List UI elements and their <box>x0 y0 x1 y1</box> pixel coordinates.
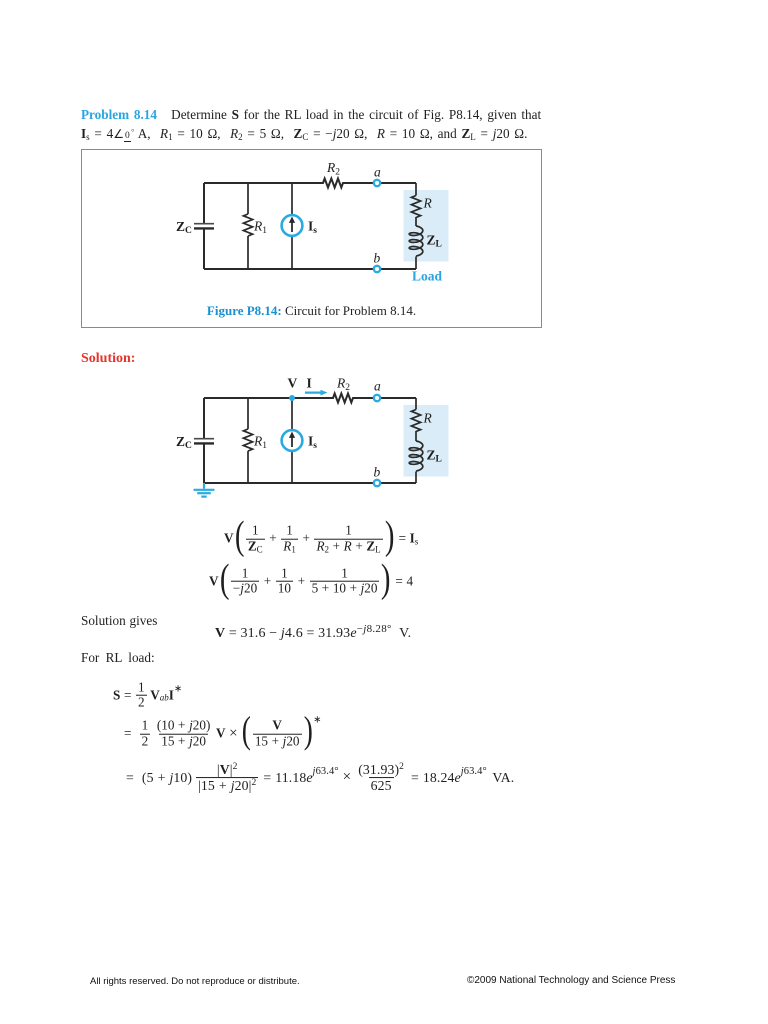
svg-text:b: b <box>374 251 381 266</box>
svg-text:R1: R1 <box>253 219 267 237</box>
svg-text:ZC: ZC <box>176 219 192 236</box>
svg-text:Is: Is <box>308 434 317 452</box>
svg-text:Is: Is <box>308 219 317 237</box>
svg-text:R2: R2 <box>326 160 340 178</box>
svg-text:a: a <box>374 165 381 180</box>
svg-text:b: b <box>374 465 381 480</box>
svg-text:ZC: ZC <box>176 434 192 451</box>
svg-text:R2: R2 <box>336 376 350 394</box>
svg-text:R: R <box>423 411 433 426</box>
svg-text:Load: Load <box>412 269 443 284</box>
svg-text:a: a <box>374 379 381 394</box>
svg-text:I: I <box>307 376 312 391</box>
svg-text:V: V <box>288 376 298 391</box>
svg-text:R1: R1 <box>253 434 267 452</box>
svg-text:R: R <box>423 196 433 211</box>
